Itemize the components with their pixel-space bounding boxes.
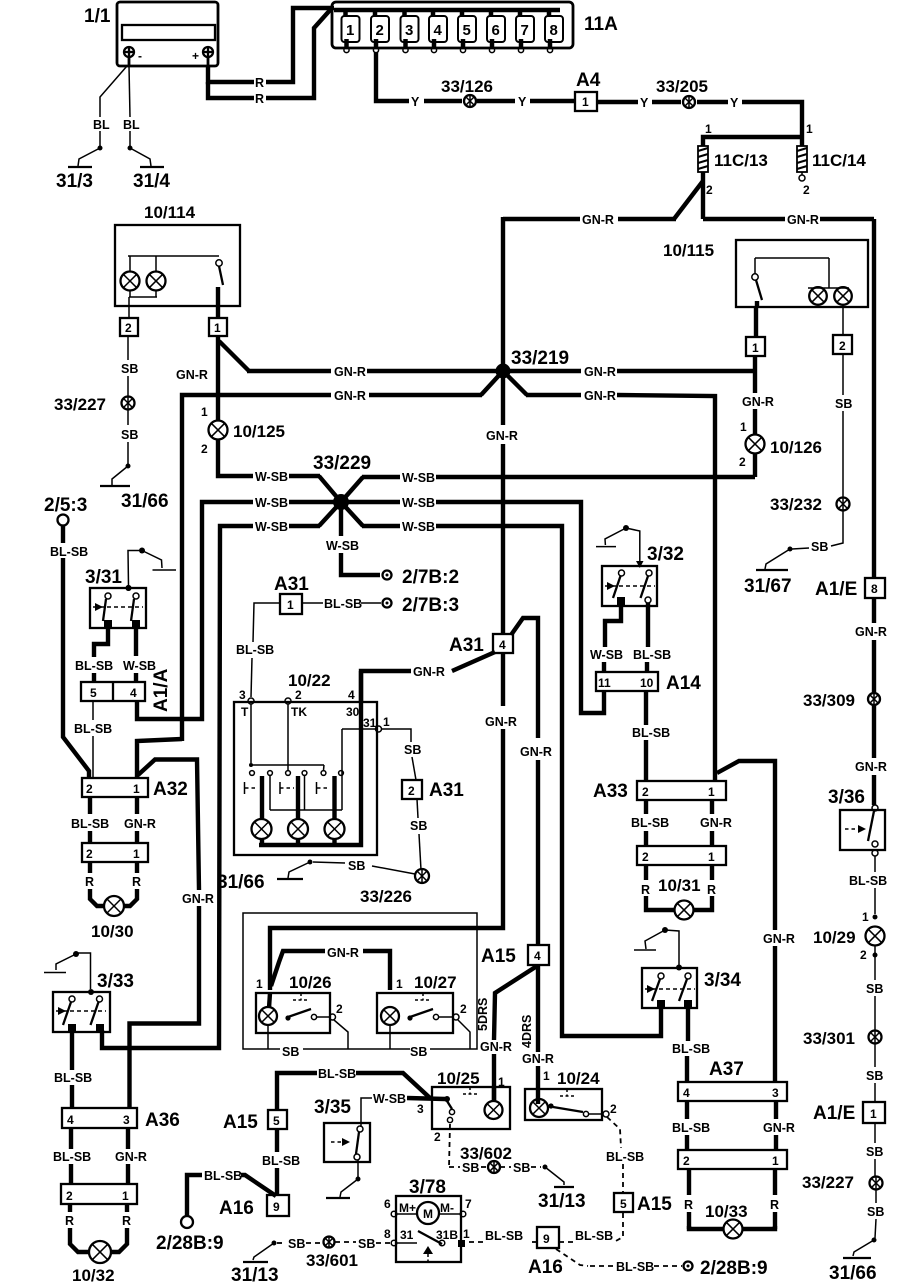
wire SB 33/227 to 31/66 xyxy=(121,410,138,465)
connector below A36 xyxy=(61,1184,137,1204)
dashed wire BL-SB A15:5 to A16:9 right xyxy=(560,1213,623,1243)
svg-text:SB: SB xyxy=(410,1045,427,1059)
wire SB 10/27 lamp to bus xyxy=(389,1025,391,1049)
svg-text:5: 5 xyxy=(90,686,97,700)
wire GN-R 5DRS A15:4 to 10/25:1 xyxy=(476,966,537,1101)
svg-text:10/24: 10/24 xyxy=(557,1069,600,1088)
svg-text:BL-SB: BL-SB xyxy=(633,648,671,662)
lamp 10/30 xyxy=(91,896,134,941)
svg-text:1: 1 xyxy=(122,1189,129,1203)
ground 31/13 (right) xyxy=(538,1165,586,1213)
svg-text:BL-SB: BL-SB xyxy=(672,1121,710,1135)
wire SB 10/114:2 to 33/227 xyxy=(121,336,138,396)
svg-text:1: 1 xyxy=(806,122,813,136)
dashed wire BL-SB A16:9 left to 3/78:1 xyxy=(466,1229,537,1243)
svg-text:SB: SB xyxy=(348,859,365,873)
svg-text:33/229: 33/229 xyxy=(313,453,371,474)
wire W-SB middle left (to A1/A-4 via x=200) xyxy=(137,496,341,719)
wire GN-R 10/114:1 down to 10/125 xyxy=(176,336,218,420)
svg-text:10/125: 10/125 xyxy=(233,422,285,441)
terminal 2/5:3 xyxy=(44,495,87,526)
wire 3/35 to ground xyxy=(326,1160,361,1198)
svg-text:1: 1 xyxy=(346,22,354,39)
wire BL-SB 3/36 to 10/29 xyxy=(849,856,887,924)
svg-text:GN-R: GN-R xyxy=(763,932,795,946)
svg-text:A16: A16 xyxy=(528,1257,563,1278)
svg-text:BL-SB: BL-SB xyxy=(54,1071,92,1085)
wire BL-SB 3/33 to A36:4 xyxy=(54,1032,92,1108)
svg-text:4: 4 xyxy=(67,1113,74,1127)
svg-text:4: 4 xyxy=(348,688,355,702)
wire GN-R A31:4 branch to x=538 xyxy=(511,618,538,738)
wire GN-R 10/115:1 down to 10/126 xyxy=(740,356,774,434)
svg-text:10/25: 10/25 xyxy=(437,1069,480,1088)
svg-text:A33: A33 xyxy=(593,781,628,802)
svg-text:R: R xyxy=(707,883,716,897)
connector A4 xyxy=(575,70,601,111)
svg-text:BL-SB: BL-SB xyxy=(75,659,113,673)
bulb element 11C/14 xyxy=(797,122,866,197)
switch 3/31 xyxy=(85,567,146,628)
svg-text:1: 1 xyxy=(383,715,390,729)
svg-text:2/7B:3: 2/7B:3 xyxy=(402,595,459,616)
svg-text:SB: SB xyxy=(358,1237,375,1251)
svg-text:31/67: 31/67 xyxy=(744,576,792,597)
lamp 10/32 xyxy=(72,1241,115,1282)
svg-text:BL-SB: BL-SB xyxy=(485,1229,523,1243)
ground 31/66 (right) xyxy=(829,1238,877,1282)
svg-text:3/36: 3/36 xyxy=(828,787,865,808)
lamp 10/125 xyxy=(201,421,285,457)
splice 33/227 xyxy=(54,395,135,414)
svg-text:1: 1 xyxy=(214,321,221,335)
wire W-SB 33/229 down to 2/7B:2 xyxy=(326,508,380,575)
svg-text:31/13: 31/13 xyxy=(538,1191,586,1212)
svg-text:A1/A: A1/A xyxy=(151,668,172,712)
wire SB 33/227 to 31/66 xyxy=(867,1190,884,1238)
svg-text:BL-SB: BL-SB xyxy=(236,643,274,657)
switch 3/31 lever xyxy=(126,548,177,592)
svg-text:3: 3 xyxy=(239,688,246,702)
svg-text:1: 1 xyxy=(772,1154,779,1168)
svg-text:1: 1 xyxy=(256,977,263,991)
wires R to lamp 10/31 xyxy=(641,865,716,910)
svg-text:SB: SB xyxy=(811,540,828,554)
wire BL-SB A14:10 to A33:2 xyxy=(632,691,670,781)
svg-text:31B: 31B xyxy=(436,1228,458,1242)
wire SB 10/27 pin2 to bus xyxy=(458,1020,470,1049)
svg-text:GN-R: GN-R xyxy=(413,665,445,679)
svg-text:SB: SB xyxy=(462,1161,479,1175)
connector below A33 xyxy=(637,846,726,865)
svg-text:2: 2 xyxy=(434,1130,441,1144)
svg-text:BL-SB: BL-SB xyxy=(74,722,112,736)
svg-text:2: 2 xyxy=(610,1102,617,1116)
svg-text:1: 1 xyxy=(543,1069,550,1083)
svg-text:A14: A14 xyxy=(666,673,701,694)
lamp-switch unit 10/26 xyxy=(256,973,343,1033)
svg-text:5DRS: 5DRS xyxy=(476,998,490,1031)
svg-text:GN-R: GN-R xyxy=(742,395,774,409)
svg-text:6: 6 xyxy=(492,22,500,39)
wire BL-SB 2/5:3 to A32:2 xyxy=(50,526,89,778)
svg-text:W-SB: W-SB xyxy=(255,470,288,484)
svg-text:A36: A36 xyxy=(145,1110,180,1131)
svg-text:2/7B:2: 2/7B:2 xyxy=(402,567,459,588)
svg-text:33/227: 33/227 xyxy=(54,395,106,414)
svg-text:M-: M- xyxy=(440,1201,454,1215)
svg-text:BL-SB: BL-SB xyxy=(324,597,362,611)
svg-text:GN-R: GN-R xyxy=(124,817,156,831)
lamp-switch unit 10/24 xyxy=(525,1069,617,1120)
svg-text:2: 2 xyxy=(408,784,415,798)
connector A14 xyxy=(596,672,701,694)
svg-text:2/28B:9: 2/28B:9 xyxy=(156,1233,224,1254)
svg-text:10/26: 10/26 xyxy=(289,973,332,992)
svg-text:2: 2 xyxy=(706,183,713,197)
svg-text:R: R xyxy=(85,875,94,889)
svg-text:31/3: 31/3 xyxy=(56,171,93,192)
lamp 10/126 xyxy=(739,435,822,470)
wire GN-R left (to corner x=503) xyxy=(503,213,676,227)
svg-text:A31: A31 xyxy=(449,635,484,656)
svg-text:+: + xyxy=(192,49,199,63)
svg-text:10/30: 10/30 xyxy=(91,922,134,941)
svg-text:TK: TK xyxy=(291,705,307,719)
wire SB 10/26 pin2 to bus xyxy=(334,1020,348,1049)
svg-text:A37: A37 xyxy=(709,1059,744,1080)
svg-text:9: 9 xyxy=(273,1200,280,1214)
connector A1/E pin8 xyxy=(815,578,885,600)
svg-text:2: 2 xyxy=(376,22,384,39)
fuse 3 xyxy=(401,10,419,53)
wire GN-R A31:4 down (x=503) xyxy=(270,653,517,990)
junction 33/219 xyxy=(481,348,569,395)
terminal 2/7B:3 xyxy=(383,595,460,616)
svg-text:BL-SB: BL-SB xyxy=(204,1169,242,1183)
connector A15 pin5 (left) xyxy=(223,1110,287,1133)
dashed wire BL-SB A16:9 down right to 2/28B:9 xyxy=(556,1249,682,1274)
svg-text:5: 5 xyxy=(273,1114,280,1128)
svg-text:BL-SB: BL-SB xyxy=(575,1229,613,1243)
svg-text:3: 3 xyxy=(123,1113,130,1127)
wire battery minus to grounds xyxy=(93,66,140,148)
lamp 10/31 xyxy=(675,901,694,920)
fuse 4 xyxy=(429,10,447,53)
svg-text:GN-R: GN-R xyxy=(182,892,214,906)
terminal 2/28B:9 (right) xyxy=(684,1258,768,1279)
svg-text:11: 11 xyxy=(598,676,611,690)
svg-text:10/32: 10/32 xyxy=(72,1266,115,1282)
svg-text:A15: A15 xyxy=(481,946,516,967)
svg-text:33/301: 33/301 xyxy=(803,1029,855,1048)
svg-text:4DRS: 4DRS xyxy=(520,1015,534,1048)
wires R to lamp 10/32 xyxy=(65,1204,131,1252)
svg-text:BL: BL xyxy=(123,118,140,132)
svg-text:33/219: 33/219 xyxy=(511,348,569,369)
svg-text:SB: SB xyxy=(404,743,421,757)
svg-text:2: 2 xyxy=(683,1154,690,1168)
svg-text:GN-R: GN-R xyxy=(327,946,359,960)
connector A1/A xyxy=(81,668,172,712)
svg-text:11A: 11A xyxy=(584,14,618,35)
svg-text:4: 4 xyxy=(499,638,506,652)
lamp-switch unit 10/25 xyxy=(417,1069,510,1144)
svg-text:1: 1 xyxy=(708,785,715,799)
connector A16 pin9 (right) xyxy=(528,1227,563,1278)
svg-text:1: 1 xyxy=(133,782,140,796)
wire W-SB upper right (to 10/126:2) xyxy=(341,471,755,502)
wire GN-R diagonal 10/114 to main feed xyxy=(219,341,249,371)
svg-text:1: 1 xyxy=(708,850,715,864)
connector above 10/33 xyxy=(678,1150,787,1169)
svg-text:W-SB: W-SB xyxy=(590,648,623,662)
svg-text:-: - xyxy=(138,49,142,63)
svg-text:3/32: 3/32 xyxy=(647,544,684,565)
wire BL-SB 3/32 to A14:10 xyxy=(633,603,671,672)
wire W-SB 3/31 to A1/A:4 xyxy=(123,628,156,682)
fuse 5 xyxy=(458,10,476,53)
svg-text:8: 8 xyxy=(871,582,878,596)
svg-text:A15: A15 xyxy=(637,1194,672,1215)
dashed wire SB 31/13 to 33/601 to 3/78:8 xyxy=(231,1237,390,1282)
wire SB 10/29 to 33/301 xyxy=(866,946,883,1030)
svg-text:BL-SB: BL-SB xyxy=(631,816,669,830)
wire SB 33/232 to 31/67 xyxy=(792,510,843,554)
wire SB 33/226 to 31/66 xyxy=(313,859,415,874)
fuse box 11A xyxy=(332,2,618,48)
svg-text:10/115: 10/115 xyxy=(663,241,714,260)
wire 11C/13 pin2 down to GN-R junction xyxy=(674,172,703,219)
svg-text:33/601: 33/601 xyxy=(306,1251,358,1270)
wire BL-SB 2/28B:9 to A16:9 xyxy=(187,1169,276,1216)
svg-text:A31: A31 xyxy=(429,780,464,801)
wire W-SB lower right (to 3/34 via x=562) xyxy=(341,502,661,1036)
svg-text:31/66: 31/66 xyxy=(829,1263,877,1282)
fuse bus rail xyxy=(334,8,560,12)
wire SB 10/26 lamp to bus xyxy=(267,1025,269,1049)
svg-text:GN-R: GN-R xyxy=(584,389,616,403)
wire GN-R right (to corner x=874) xyxy=(703,213,874,578)
svg-text:31/13: 31/13 xyxy=(231,1265,279,1282)
svg-text:1: 1 xyxy=(862,910,869,924)
svg-text:2/5:3: 2/5:3 xyxy=(44,495,87,516)
splice 33/232 xyxy=(770,495,850,514)
svg-text:1: 1 xyxy=(705,122,712,136)
svg-text:SB: SB xyxy=(866,982,883,996)
svg-text:GN-R: GN-R xyxy=(480,1040,512,1054)
wire GN-R second row left (x=182 corner) xyxy=(182,389,482,741)
wire BL-SB 3/34 to A37:4 xyxy=(672,1008,710,1082)
interior lamp subcircuit outer box xyxy=(243,913,477,1059)
svg-text:33/126: 33/126 xyxy=(441,77,493,96)
svg-text:Y: Y xyxy=(640,96,649,110)
svg-text:BL-SB: BL-SB xyxy=(53,1150,91,1164)
svg-text:W-SB: W-SB xyxy=(402,520,435,534)
svg-text:W-SB: W-SB xyxy=(255,496,288,510)
svg-text:33/227: 33/227 xyxy=(802,1173,854,1192)
connector pin 10/114:1 xyxy=(209,306,227,336)
connector A15 pin5 (right) xyxy=(614,1193,672,1215)
wire W-SB 3/32 to A14:11 xyxy=(590,605,623,672)
fuse 8 xyxy=(545,10,563,53)
svg-text:10/31: 10/31 xyxy=(658,876,701,895)
wire GN-R A1/E:8 to 33/309 xyxy=(855,598,887,693)
fuse 6 xyxy=(487,10,505,53)
svg-text:BL-SB: BL-SB xyxy=(71,817,109,831)
svg-text:10/27: 10/27 xyxy=(414,973,457,992)
switch 3/33 xyxy=(53,971,134,1032)
svg-text:SB: SB xyxy=(121,428,138,442)
wire GN-R x=538 to A15:4 xyxy=(520,745,552,945)
svg-text:30: 30 xyxy=(346,705,360,719)
wire GN-R x=182 to A32:1 xyxy=(137,739,182,778)
svg-text:6: 6 xyxy=(384,1197,391,1211)
svg-text:BL-SB: BL-SB xyxy=(672,1042,710,1056)
svg-text:2: 2 xyxy=(860,948,867,962)
wire BL-SB A15:5 to 10/25 area xyxy=(277,1067,430,1110)
connector pin 10/114:2 xyxy=(120,306,138,336)
fuse 1 xyxy=(342,10,360,53)
svg-text:3: 3 xyxy=(405,22,413,39)
svg-text:33/309: 33/309 xyxy=(803,691,855,710)
svg-text:GN-R: GN-R xyxy=(522,1052,554,1066)
relay 10/114 xyxy=(115,203,240,306)
svg-text:M+: M+ xyxy=(399,1201,416,1215)
connector A37 xyxy=(678,1059,787,1101)
svg-text:SB: SB xyxy=(282,1045,299,1059)
svg-text:BL: BL xyxy=(93,118,110,132)
svg-text:GN-R: GN-R xyxy=(334,389,366,403)
svg-text:GN-R: GN-R xyxy=(763,1121,795,1135)
switch 3/35 xyxy=(314,1097,370,1162)
svg-text:2: 2 xyxy=(460,1002,467,1016)
svg-text:A15: A15 xyxy=(223,1112,258,1133)
svg-text:BL-SB: BL-SB xyxy=(632,726,670,740)
vertical GN-R spine x=503 (33/219 down) xyxy=(486,217,518,634)
wires A36 to mate connector xyxy=(53,1128,147,1184)
svg-text:31: 31 xyxy=(400,1228,414,1242)
svg-text:A4: A4 xyxy=(576,70,601,91)
svg-text:SB: SB xyxy=(410,819,427,833)
svg-text:1: 1 xyxy=(396,977,403,991)
wire SB 10/22:31 to A31:2 xyxy=(382,729,422,780)
wire battery plus to fuse box (R) xyxy=(208,8,334,106)
svg-text:3/35: 3/35 xyxy=(314,1097,351,1118)
lamp unit 10/22 xyxy=(234,671,390,855)
svg-text:2: 2 xyxy=(86,782,93,796)
svg-text:GN-R: GN-R xyxy=(582,213,614,227)
terminal 2/7B:2 xyxy=(383,567,460,588)
svg-text:10: 10 xyxy=(640,676,654,690)
svg-text:GN-R: GN-R xyxy=(485,715,517,729)
svg-text:W-SB: W-SB xyxy=(255,520,288,534)
wire GN-R main to 33/219 xyxy=(247,365,503,379)
svg-text:GN-R: GN-R xyxy=(855,625,887,639)
svg-text:BL-SB: BL-SB xyxy=(318,1067,356,1081)
svg-text:5: 5 xyxy=(620,1197,627,1211)
battery 1/1 xyxy=(84,2,218,67)
switch 3/34 lever xyxy=(634,927,682,971)
wiper motor 3/78 xyxy=(384,1177,472,1262)
lamp-switch unit 10/27 xyxy=(377,973,467,1033)
svg-text:3: 3 xyxy=(772,1086,779,1100)
lamp 10/33 xyxy=(724,1220,743,1239)
svg-text:BL-SB: BL-SB xyxy=(616,1260,654,1274)
terminal 2/28B:9 (left) xyxy=(156,1216,224,1254)
svg-text:GN-R: GN-R xyxy=(115,1150,147,1164)
svg-text:R: R xyxy=(770,1198,779,1212)
wire A4 to 33/205 to corner (Y) xyxy=(597,96,802,146)
splice 33/309 xyxy=(803,691,880,710)
splice 33/602 xyxy=(460,1144,512,1173)
svg-text:GN-R: GN-R xyxy=(787,213,819,227)
svg-text:2: 2 xyxy=(642,850,649,864)
svg-text:1: 1 xyxy=(201,405,208,419)
wire SB 33/301 to A1/E:1 xyxy=(866,1044,883,1102)
wire SB A31:2 to 33/226 xyxy=(410,799,427,870)
svg-text:33/226: 33/226 xyxy=(360,887,412,906)
svg-text:W-SB: W-SB xyxy=(402,471,435,485)
splice 33/126 xyxy=(441,77,493,107)
wire GN-R second row right (to A33 feed x=716) xyxy=(526,389,715,781)
svg-text:11C/14: 11C/14 xyxy=(812,151,866,170)
svg-text:BL-SB: BL-SB xyxy=(849,874,887,888)
wire W-SB lower left (to 3/33 via x=219) xyxy=(102,502,341,1048)
wire SB A1/E:1 to 33/227 xyxy=(866,1123,883,1176)
svg-text:A16: A16 xyxy=(219,1198,254,1219)
svg-text:R: R xyxy=(65,1214,74,1228)
svg-text:2: 2 xyxy=(739,455,746,469)
wire GN-R A31:4 diagonal to 10/22 feed xyxy=(361,652,495,702)
svg-text:1: 1 xyxy=(463,1227,470,1241)
fuse 7 xyxy=(516,10,534,53)
svg-text:GN-R: GN-R xyxy=(520,745,552,759)
svg-text:R: R xyxy=(255,92,264,106)
svg-text:4: 4 xyxy=(434,22,443,39)
svg-text:10/126: 10/126 xyxy=(770,438,822,457)
svg-text:1: 1 xyxy=(582,95,589,109)
svg-text:2: 2 xyxy=(125,321,132,335)
svg-text:A1/E: A1/E xyxy=(813,1103,855,1124)
dashed wire SB 33/602 to 31/13 xyxy=(500,1161,541,1175)
ground 31/4 xyxy=(128,146,171,193)
wire BL-SB A1/A:5 to A32:2 xyxy=(74,701,112,778)
connector A36 xyxy=(62,1108,180,1131)
svg-text:2: 2 xyxy=(642,785,649,799)
dashed wire BL-SB 10/24:2 to A15:5 right xyxy=(606,1117,644,1193)
svg-text:33/232: 33/232 xyxy=(770,495,822,514)
wire GN-R A33:1 branch to A37:3 (x=775) xyxy=(717,761,795,1082)
svg-text:SB: SB xyxy=(866,1145,883,1159)
svg-text:A32: A32 xyxy=(153,779,188,800)
svg-text:SB: SB xyxy=(121,362,138,376)
svg-text:GN-R: GN-R xyxy=(176,368,208,382)
svg-text:3/34: 3/34 xyxy=(704,970,741,991)
connector A33 xyxy=(593,781,726,802)
wire 10/126:2 down to W-SB row xyxy=(753,453,757,477)
wire GN-R 4DRS A15:4 to 10/24:1 xyxy=(520,965,554,1104)
svg-text:2: 2 xyxy=(295,688,302,702)
svg-text:5: 5 xyxy=(463,22,471,39)
svg-text:SB: SB xyxy=(513,1161,530,1175)
wires A37 to 10/33 connector xyxy=(672,1101,795,1150)
svg-text:33/602: 33/602 xyxy=(460,1144,512,1163)
wire branch to 11C/13 xyxy=(703,137,802,146)
svg-text:M: M xyxy=(423,1207,433,1221)
fuse 2 xyxy=(371,10,389,53)
svg-text:1: 1 xyxy=(870,1107,877,1121)
